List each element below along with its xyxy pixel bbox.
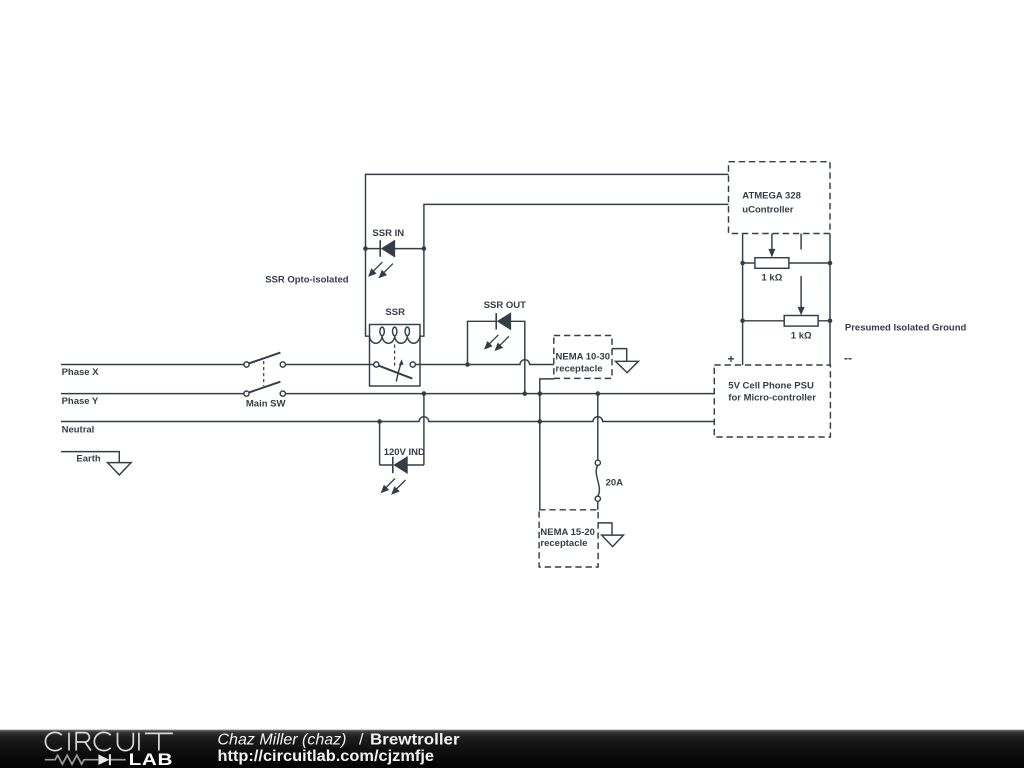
LED arrows 120V IND [381, 479, 405, 495]
node SSR IN left [363, 246, 368, 251]
switch gang link (dashed) [263, 361, 265, 386]
wire SSR IN left branch (top wire to ATMEGA) [366, 174, 729, 336]
logo diode triangle [98, 754, 109, 765]
svg-text:SSR: SSR [385, 307, 405, 318]
diode 120V IND cathode bar [392, 457, 394, 473]
breaker 20A curve [596, 465, 599, 496]
svg-text:receptacle: receptacle [540, 538, 587, 549]
svg-text:SSR OUT: SSR OUT [484, 300, 526, 311]
resistor R1 wires [743, 262, 830, 264]
node R2 right [828, 319, 833, 324]
terminal SW2 left [244, 391, 249, 396]
wire Phase X left segment [61, 364, 244, 366]
relay SSR switch blade [379, 366, 413, 379]
node SSR IN right [422, 246, 427, 251]
diode SSR IN wires [366, 248, 424, 250]
node R1 right [828, 261, 833, 266]
PSU box (dashed) [714, 365, 830, 437]
node R2 left [740, 319, 745, 324]
svg-text:Presumed Isolated Ground: Presumed Isolated Ground [845, 323, 967, 334]
svg-text:ATMEGA 328: ATMEGA 328 [742, 190, 801, 201]
logo diode bar [109, 754, 111, 765]
svg-text:NEMA 10-30: NEMA 10-30 [556, 351, 611, 362]
svg-text:/: / [359, 732, 364, 749]
wire Earth lead [61, 452, 119, 463]
svg-text:1 kΩ: 1 kΩ [791, 330, 812, 341]
node NEMA vertical on Phase Y [538, 391, 543, 396]
svg-text:receptacle: receptacle [556, 364, 603, 375]
svg-text:NEMA 15-20: NEMA 15-20 [540, 527, 595, 538]
breaker 20A branch wires [597, 394, 599, 510]
LED arrows SSR IN [369, 262, 393, 278]
uController ATMEGA box (dashed) [729, 162, 831, 234]
relay SSR box [370, 325, 421, 387]
ground NEMA 10-30 lead [612, 349, 627, 362]
wire Neutral with hops at 120V IND and 20A [61, 417, 714, 422]
wire Phase X middle segment (switch to relay) [285, 364, 374, 366]
relay SSR coil [370, 336, 420, 344]
node SSR OUT on Phase X [465, 362, 470, 367]
resistor R2 wires [743, 320, 830, 322]
relay SSR mech link dashed [394, 345, 396, 368]
terminal SW2 right [280, 391, 285, 396]
svg-text:http://circuitlab.com/cjzmfje: http://circuitlab.com/cjzmfje [218, 748, 435, 765]
wire 120V IND branch [380, 394, 424, 465]
svg-text:Neutral: Neutral [62, 425, 95, 436]
footer bar [0, 730, 1024, 768]
node SSR OUT on Phase Y [523, 391, 528, 396]
wire NEMA 10-30 to Phase Y / NEMA 15-20 vertical [540, 379, 554, 510]
ground NEMA 10-30 triangle [616, 361, 639, 372]
wire left rail (ATMEGA to PSU) [742, 234, 744, 366]
diode SSR OUT cathode bar [495, 313, 497, 329]
terminal breaker bottom [595, 496, 600, 501]
wire Phase Y right segment (switch to PSU) [285, 393, 714, 395]
svg-text:--: -- [844, 351, 852, 365]
switch SW2 blade (Phase Y) [248, 382, 280, 393]
svg-text:20A: 20A [606, 478, 624, 489]
svg-text:120V IND: 120V IND [384, 447, 425, 458]
svg-text:for Micro-controller: for Micro-controller [728, 392, 816, 403]
node 120V IND on Phase Y [422, 391, 427, 396]
terminal SW1 left [244, 362, 249, 367]
wire Phase X right segment with hop over SSR OUT drop [415, 360, 554, 365]
receptacle NEMA 15-20 box (dashed) [539, 510, 598, 567]
diode SSR IN cathode bar [379, 240, 381, 257]
ground NEMA 15-20 triangle [602, 535, 624, 547]
logo CIRCUIT letters [45, 732, 172, 750]
receptacle NEMA 10-30 box (dashed) [554, 336, 612, 379]
svg-text:1 kΩ: 1 kΩ [762, 273, 783, 284]
svg-text:LAB: LAB [129, 750, 174, 768]
svg-text:Earth: Earth [76, 454, 100, 465]
wire SSR OUT branch [468, 321, 525, 393]
node NEMA vertical on Neutral [538, 419, 543, 424]
ground Earth [108, 463, 132, 475]
terminal relay right [410, 362, 415, 367]
svg-text:Main SW: Main SW [246, 399, 286, 410]
arrow into R1 [771, 234, 773, 250]
diode SSR IN triangle [382, 241, 394, 256]
svg-text:Phase Y: Phase Y [62, 396, 99, 407]
resistor R2 body [784, 316, 818, 327]
wire right rail (ATMEGA to PSU) [829, 234, 831, 366]
svg-text:5V Cell Phone PSU: 5V Cell Phone PSU [728, 381, 814, 392]
svg-text:Chaz Miller (chaz): Chaz Miller (chaz) [218, 732, 347, 749]
svg-text:SSR IN: SSR IN [372, 228, 404, 239]
terminal breaker top [595, 460, 600, 465]
relay SSR actuator arrow [396, 364, 401, 382]
diode SSR OUT triangle [498, 314, 510, 329]
switch SW1 blade (Phase X) [248, 353, 280, 364]
svg-text:Phase X: Phase X [62, 367, 100, 378]
svg-text:+: + [728, 352, 735, 366]
arrow into R2 (broken at crossing) [800, 234, 802, 308]
LED arrows SSR OUT [485, 335, 509, 351]
terminal relay left [374, 362, 379, 367]
node 120V IND on Neutral [377, 419, 382, 424]
diode 120V IND triangle [395, 457, 407, 472]
terminal SW1 right [280, 362, 285, 367]
node R1 left [740, 261, 745, 266]
wire SSR IN right branch (second wire to ATMEGA) [420, 204, 729, 336]
resistor R1 body [755, 258, 789, 269]
svg-text:Brewtroller: Brewtroller [370, 732, 460, 749]
svg-text:uController: uController [742, 204, 793, 215]
logo resistor-diode symbol [45, 755, 126, 764]
ground NEMA 15-20 lead [598, 523, 612, 535]
wire Phase Y left segment [61, 393, 244, 395]
node 20A on Phase Y [596, 391, 601, 396]
svg-text:SSR Opto-isolated: SSR Opto-isolated [265, 274, 349, 285]
